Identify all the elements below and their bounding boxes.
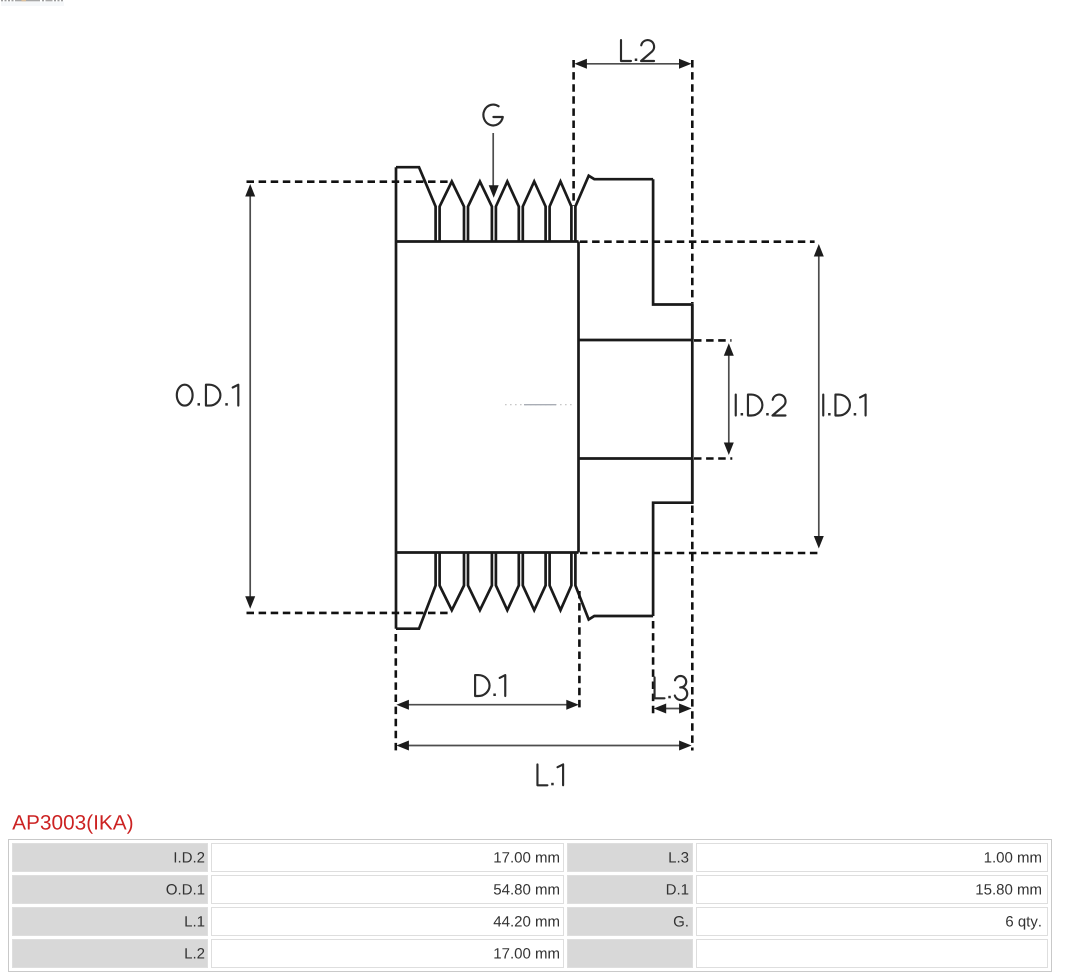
- specification table background: [8, 839, 1052, 972]
- O.D.1 bottom reference dashed line: [247, 612, 451, 615]
- L.1 right dashed extension bottom: [691, 506, 694, 751]
- top-left clipped logo artifact: [1, 0, 64, 6]
- L.2 L.1 right dashed extension top: [691, 60, 694, 303]
- G arrowhead: [489, 185, 499, 198]
- pulley left edge: [395, 167, 398, 629]
- O.D.1 top reference dashed line: [247, 180, 453, 183]
- I.D.2 bottom dashed reference: [694, 457, 732, 460]
- pulley top flange and grooves: [396, 167, 653, 241]
- O.D.1 arrowheads: [245, 184, 255, 197]
- I.D.2 top dashed reference: [694, 339, 732, 342]
- I.D.1 bottom dashed reference: [580, 552, 820, 555]
- hub bottom step: [653, 459, 692, 617]
- label I.D.1: [823, 395, 865, 416]
- I.D.1 top dashed reference: [580, 240, 815, 243]
- D.1 right dashed extension: [578, 591, 581, 709]
- label L.3: [655, 676, 688, 700]
- I.D.2 dimension arrow shaft: [728, 354, 730, 444]
- L.1 D.1 left dashed extension: [394, 634, 397, 751]
- pulley top groove base line: [396, 240, 579, 243]
- I.D.1 arrowheads: [814, 244, 824, 257]
- L.1 dimension arrow shaft: [408, 745, 680, 747]
- label D.1: [475, 675, 505, 696]
- pulley right disc edge: [577, 242, 580, 553]
- pulley bottom groove base line: [396, 551, 579, 554]
- table cell text: [167, 852, 1042, 959]
- label G: [483, 105, 502, 126]
- pulley bottom flange and grooves: [396, 553, 653, 629]
- G arrow shaft: [492, 133, 494, 188]
- O.D.1 dimension arrow shaft: [249, 192, 251, 600]
- L.3 arrowheads: [654, 704, 667, 714]
- L.1 arrowheads: [396, 741, 409, 751]
- L.2 dimension arrow shaft: [585, 63, 682, 65]
- centerline: [505, 404, 573, 406]
- label L.2: [621, 40, 654, 61]
- label I.D.2: [736, 395, 786, 416]
- L.3 dimension arrow shaft: [664, 708, 681, 710]
- part number title AP3003(IKA): [12, 814, 132, 833]
- I.D.1 dimension arrow shaft: [818, 254, 820, 540]
- label L.1: [537, 764, 563, 785]
- bore bottom line: [579, 457, 693, 460]
- I.D.2 arrowheads: [724, 343, 734, 356]
- L.3 left dashed extension: [652, 621, 655, 717]
- D.1 arrowheads: [396, 700, 409, 710]
- L.2 arrowheads: [574, 59, 587, 69]
- hub top step: [653, 179, 692, 340]
- hub right solid edge: [691, 305, 694, 503]
- D.1 dimension arrow shaft: [408, 704, 568, 706]
- bore top line: [579, 339, 693, 342]
- L.2 left dashed extension: [572, 60, 575, 206]
- label O.D.1: [177, 385, 239, 406]
